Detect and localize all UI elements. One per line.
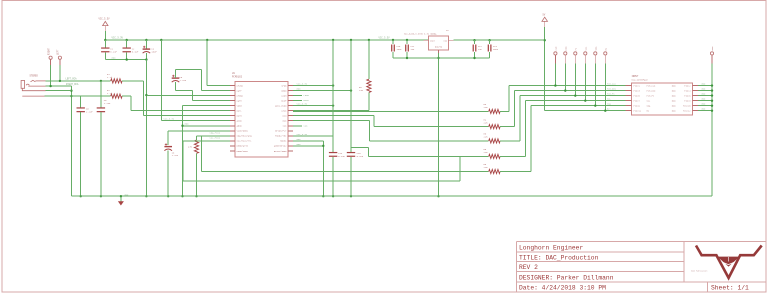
capacitor C10 10uF — [392, 40, 394, 44]
junction VNEG at ground rail — [181, 195, 183, 197]
svg-text:PCM5102: PCM5102 — [232, 76, 243, 79]
svg-text:REV 2: REV 2 — [519, 264, 538, 271]
junction C15 line row2 — [350, 89, 352, 91]
junction post SDA — [594, 104, 596, 106]
wire BCK to R3 — [293, 110, 489, 112]
wire main ground rail — [71, 195, 712, 197]
junction GND drop at rail — [322, 195, 324, 197]
svg-text:PIN#6: PIN#6 — [684, 95, 691, 98]
svg-text:PIN#4: PIN#4 — [684, 90, 691, 93]
wire R8 to header — [500, 155, 525, 157]
svg-text:10uF: 10uF — [493, 48, 499, 51]
svg-text:VCC_3.3V: VCC_3.3V — [379, 37, 391, 40]
junction U2 gnd at cap bus — [437, 57, 439, 59]
pin post SDA — [594, 52, 597, 55]
wire C4 GND drop to ground rail — [145, 60, 147, 197]
svg-text:RIGHT: RIGHT — [47, 47, 50, 55]
svg-text:VOUT: VOUT — [430, 39, 436, 42]
svg-text:SCL_PICK: SCL_PICK — [210, 137, 221, 140]
junction bus at CPVDD drop — [206, 39, 208, 41]
svg-text:AGND: AGND — [237, 125, 243, 128]
svg-text:SDA: SDA — [594, 46, 597, 51]
power symbol 5V top-right — [542, 17, 548, 21]
junction bus at C14 drop — [332, 39, 334, 41]
pin P1 RIGHT input — [49, 56, 52, 59]
svg-text:PIN#9: PIN#9 — [634, 105, 641, 108]
svg-text:LDOM: LDOM — [304, 94, 310, 97]
wire R4 to header — [500, 126, 514, 128]
svg-text:VNEG: VNEG — [237, 105, 243, 108]
svg-text:PIN#3: PIN#3 — [634, 90, 641, 93]
svg-text:1.7k: 1.7k — [107, 92, 113, 95]
svg-text:GND: GND — [297, 143, 302, 146]
resistor R1 1.7k left channel — [111, 79, 122, 83]
connector J1 stereo jack — [21, 80, 46, 96]
resistor R3 22R — [489, 109, 500, 113]
svg-text:BCKF: BCKF — [281, 100, 287, 103]
wire CAPM via C5 bottom — [175, 82, 177, 91]
junction sleeve/right jog — [70, 90, 72, 92]
junction U2 gnd at rail — [437, 195, 439, 197]
junction LEFT at pin P2 — [59, 80, 61, 82]
junction input caps C13 — [488, 39, 490, 41]
svg-text:OUTR: OUTR — [237, 115, 243, 118]
junction 5V / regulator output bus — [544, 39, 546, 41]
wire VCC stem — [104, 31, 106, 40]
svg-text:LEFT_RCA: LEFT_RCA — [66, 78, 78, 81]
svg-text:DGND: DGND — [281, 90, 287, 93]
junction cap bus C12 — [473, 57, 475, 59]
resistor R4 22R — [489, 125, 500, 129]
wire DIN to R4 staircase — [293, 115, 374, 117]
wire regulator cap ground bus — [393, 57, 490, 59]
svg-text:0.1uF: 0.1uF — [110, 50, 117, 53]
J2 right pin stubs — [692, 86, 698, 111]
svg-text:STEREO: STEREO — [30, 74, 39, 77]
svg-text:VCC_3.3V: VCC_3.3V — [297, 102, 308, 105]
wire U2 ground drop — [438, 53, 440, 196]
resistor R7 47k — [196, 136, 198, 140]
svg-text:GND/EN: GND/EN — [435, 46, 443, 49]
svg-text:TITLE: DAC_Production: TITLE: DAC_Production — [519, 254, 599, 261]
power symbol VCC_3.3V top-left — [103, 21, 108, 25]
svg-text:LEFT: LEFT — [57, 49, 60, 55]
svg-text:PIN#2: PIN#2 — [684, 85, 691, 88]
svg-text:SCL/MCLK/TTL: SCL/MCLK/TTL — [237, 140, 253, 143]
wire ring net — [45, 95, 111, 97]
J2 inner pin numbers left — [634, 85, 642, 113]
ground symbol GND — [120, 196, 122, 201]
svg-text:MCU-INTERFACE: MCU-INTERFACE — [632, 78, 649, 81]
wire R2 to OUTR — [122, 95, 131, 97]
svg-text:CAPP: CAPP — [237, 90, 243, 93]
junction C14 line row5 — [332, 104, 334, 106]
svg-text:GND: GND — [711, 46, 714, 51]
wire 5V stem — [544, 21, 546, 27]
svg-text:DESIGNER: Parker Dillmann: DESIGNER: Parker Dillmann — [519, 274, 614, 281]
junction post DIN — [564, 89, 566, 91]
J2 right GND net labels — [702, 82, 706, 110]
capacitor C6 2.2uF VCOM — [167, 131, 169, 145]
wire C15 tap to R4 net — [351, 147, 369, 149]
title block outline — [517, 242, 767, 293]
J2 inner GND column — [672, 85, 676, 113]
svg-text:Date: 4/24/2018 3:10 PM: Date: 4/24/2018 3:10 PM — [519, 285, 606, 292]
junction C15 at rail — [350, 195, 352, 197]
svg-text:PCM_DIN: PCM_DIN — [607, 87, 616, 90]
svg-text:GND: GND — [297, 138, 302, 141]
longhorn logo — [696, 246, 762, 278]
junction bus at AVDD drop — [160, 39, 162, 41]
svg-text:22R: 22R — [484, 151, 489, 154]
wire DGND pin2 — [293, 90, 351, 92]
svg-text:PIN#1: PIN#1 — [634, 85, 641, 88]
wire R9 to header — [500, 171, 531, 173]
wire 5V to header — [545, 110, 626, 112]
svg-text:CPVDD: CPVDD — [237, 85, 244, 88]
svg-text:PCM_CLK: PCM_CLK — [647, 85, 656, 88]
connector J2 INPUT header body — [632, 83, 693, 115]
U1 left pin names — [237, 85, 253, 153]
junction C4 drop at rail — [145, 195, 147, 197]
capacitor C4 10uF polarized — [145, 40, 147, 48]
svg-text:PIN#10: PIN#10 — [683, 105, 691, 108]
capacitor C5 2.2uF flying — [172, 77, 180, 79]
junction bus at C1 — [104, 39, 106, 41]
capacitor C11 1uF — [406, 40, 408, 44]
junction C8 at ground rail — [80, 195, 82, 197]
wire jack sleeve to ground rail — [70, 86, 72, 196]
svg-text:AVDD: AVDD — [237, 120, 243, 123]
pin post DIN — [564, 52, 567, 55]
svg-text:VCC_3.3V: VCC_3.3V — [164, 117, 175, 120]
junction RIGHT at pin P1 — [49, 85, 51, 87]
wire AVDD from bus — [160, 40, 162, 121]
U1 left pin stubs — [230, 86, 235, 151]
wire DVDD pin5 — [293, 105, 333, 107]
junction GND bus at C4 — [145, 58, 147, 60]
junction LEFT at C9 tap — [100, 80, 102, 82]
capacitor C13 10uF — [489, 40, 491, 44]
U2 right pin stub — [449, 39, 454, 41]
svg-text:FODB2/TRI: FODB2/TRI — [275, 135, 287, 138]
wire GND bus under C1-C4 — [105, 59, 146, 61]
pin post FS — [574, 52, 577, 55]
junction input caps C12 — [473, 39, 475, 41]
svg-text:22R: 22R — [484, 106, 489, 109]
wire AGND row9 — [183, 125, 231, 127]
svg-text:Longhorn Engineer: Longhorn Engineer — [519, 244, 583, 251]
svg-text:ADR0/GPIO2: ADR0/GPIO2 — [274, 145, 287, 148]
svg-text:ABS1_DVDD: ABS1_DVDD — [275, 105, 287, 108]
svg-text:PIN#8: PIN#8 — [684, 100, 691, 103]
wire R5 to header — [500, 140, 520, 142]
svg-text:RIGHT_RCA: RIGHT_RCA — [66, 83, 79, 86]
net stub BCKF — [293, 100, 302, 102]
svg-text:PIN#5: PIN#5 — [634, 95, 641, 98]
svg-text:GND: GND — [185, 122, 190, 125]
junction bus at R6 pullup — [368, 39, 370, 41]
capacitor C8 2.2uF — [80, 96, 82, 107]
pin post GND right — [710, 52, 713, 55]
svg-text:SCL: SCL — [584, 46, 587, 51]
svg-text:Sheet: 1/1: Sheet: 1/1 — [711, 285, 749, 292]
svg-text:PIN#11: PIN#11 — [634, 110, 642, 113]
junction bus at C4 — [145, 39, 147, 41]
net stub LDOM — [293, 95, 302, 97]
svg-text:22R: 22R — [484, 136, 489, 139]
wire CPGND — [146, 95, 230, 97]
junction rail at ground symbol — [120, 195, 122, 197]
svg-text:PIN#7: PIN#7 — [634, 100, 641, 103]
wire LRCK to R5 staircase — [293, 120, 370, 122]
U1 right pin names — [274, 85, 287, 153]
wire U2 input bus 5V side — [454, 39, 545, 41]
junction GND drop row13 — [322, 145, 324, 147]
J2 left net labels — [607, 82, 616, 110]
resistor R2 1.7k right channel — [111, 94, 122, 98]
pin post CLK — [554, 52, 557, 55]
svg-text:DMGB/ATTB: DMGB/ATTB — [237, 145, 249, 148]
svg-text:GPIO3/FLT: GPIO3/FLT — [275, 130, 287, 133]
wire R1 to OUTL — [122, 80, 143, 82]
J2 left pin stubs — [626, 86, 632, 111]
svg-text:VCC_3.3V: VCC_3.3V — [112, 37, 124, 40]
wire R3 to header — [500, 110, 509, 112]
capacitor C12 1uF — [474, 40, 476, 44]
resistor R9 22R — [489, 169, 500, 173]
J2 right GND wires — [698, 86, 712, 111]
junction CPGND tap — [145, 94, 147, 96]
svg-text:DIN: DIN — [564, 46, 567, 51]
svg-text:0.1uF: 0.1uF — [132, 50, 139, 53]
wire XSMT pullup row — [293, 110, 369, 112]
capacitor C1 0.1uF — [104, 40, 106, 48]
svg-text:MODE1: MODE1 — [280, 140, 287, 143]
capacitor C2 0.1uF — [126, 40, 128, 48]
svg-text:VCC_3.3V: VCC_3.3V — [297, 82, 308, 85]
wire VCC_3.3V pin1 — [293, 85, 333, 87]
svg-text:SCK: SCK — [304, 124, 309, 127]
svg-text:PCM_DIN: PCM_DIN — [647, 90, 656, 93]
wire GND tap row12 — [293, 140, 324, 142]
wire CAPP via C5 top — [175, 70, 177, 79]
resistor R8 22R — [489, 154, 500, 158]
svg-text:MIC-5205-3.3YM5 3.3V 300mA: MIC-5205-3.3YM5 3.3V 300mA — [404, 33, 437, 36]
wire RIGHT_RCA — [46, 85, 72, 87]
svg-text:VCC_3.3V: VCC_3.3V — [99, 18, 111, 21]
svg-text:CLK: CLK — [555, 46, 558, 51]
wire VCC tap row11 — [293, 135, 333, 137]
svg-text:LRCK: LRCK — [281, 110, 287, 113]
svg-text:10uF: 10uF — [151, 50, 157, 53]
junction AGND at VNEG drop — [181, 125, 183, 127]
svg-text:2.2uF: 2.2uF — [86, 110, 93, 113]
svg-text:Moon Fabrication: Moon Fabrication — [691, 270, 707, 272]
junction cap bus C11 — [406, 57, 408, 59]
svg-text:PCM_CLK: PCM_CLK — [607, 82, 616, 85]
svg-text:10uF: 10uF — [397, 48, 403, 51]
junction bus at C10 — [392, 39, 394, 41]
U2 left pin stub — [424, 39, 429, 41]
wire CPVDD feed — [206, 40, 208, 86]
junction C14 at rail — [332, 195, 334, 197]
svg-text:0.1uF: 0.1uF — [357, 155, 364, 158]
junction post FS — [574, 94, 576, 96]
resistor R6 22R pullup — [368, 40, 370, 79]
junction post 5V — [604, 110, 606, 112]
svg-text:GND: GND — [112, 56, 117, 59]
pin post 5V — [604, 52, 607, 55]
pin P2 LEFT input — [58, 56, 61, 59]
voltage regulator U2 body — [429, 36, 449, 50]
junction R7 at ground rail — [195, 195, 197, 197]
svg-text:22R: 22R — [484, 166, 489, 169]
wire GND right rail — [711, 86, 713, 197]
svg-text:VCC_3.3V: VCC_3.3V — [297, 133, 308, 136]
op-amp U1 PCM5102 body — [235, 82, 288, 157]
svg-text:LDOM: LDOM — [281, 95, 287, 98]
junction bus at C2 — [126, 39, 128, 41]
wire GND tap row13 — [293, 145, 324, 147]
junction GND bus at C2 — [126, 58, 128, 60]
wire SCL_PICK — [183, 140, 230, 142]
svg-text:2.2uF: 2.2uF — [104, 102, 111, 105]
svg-text:1.7k: 1.7k — [107, 76, 113, 79]
svg-text:GPIO1/3GND: GPIO1/3GND — [274, 150, 287, 153]
svg-text:PIN#12: PIN#12 — [683, 110, 691, 113]
svg-text:SPDB: SPDB — [281, 85, 287, 88]
junction post SCL — [584, 99, 586, 101]
junction C14 line row1 — [332, 84, 334, 86]
capacitor C9 2.2uF — [100, 81, 102, 108]
svg-text:47k: 47k — [188, 146, 193, 149]
junction C6 at ground rail — [167, 195, 169, 197]
svg-text:CPGND: CPGND — [237, 95, 244, 98]
wire LEFT_RCA — [46, 80, 111, 82]
U2 ground pin stub — [438, 50, 440, 53]
wire VNEG to ground rail — [182, 106, 184, 197]
resistor R5 22R — [489, 139, 500, 143]
junction C9 at ground rail — [100, 195, 102, 197]
junction bus at C11 — [406, 39, 408, 41]
net stub SCK — [293, 125, 302, 127]
pin post SCL — [584, 52, 587, 55]
svg-text:0.1uF: 0.1uF — [338, 155, 345, 158]
svg-text:PCM_FS: PCM_FS — [607, 92, 615, 95]
junction bus at C15 drop — [350, 39, 352, 41]
wire SCL to R4 — [369, 155, 489, 157]
svg-text:22R: 22R — [484, 121, 489, 124]
svg-text:2.2uF: 2.2uF — [172, 154, 179, 157]
J2 inner pin numbers right — [683, 85, 691, 113]
svg-text:OUTL: OUTL — [237, 110, 243, 113]
svg-text:2.2uF: 2.2uF — [180, 79, 187, 82]
svg-text:PCM_FS: PCM_FS — [647, 95, 655, 98]
svg-text:22R: 22R — [359, 89, 364, 92]
J2 inner signal names — [647, 85, 656, 113]
capacitor C15 0.1uF — [350, 40, 352, 152]
capacitor C14 0.1uF — [332, 40, 334, 152]
wire GND drop to rail — [322, 141, 324, 196]
wire SDA_PICK — [202, 135, 231, 137]
svg-text:GND: GND — [297, 87, 302, 90]
svg-text:DMGA/PAGT: DMGA/PAGT — [237, 150, 249, 153]
wire VCC_3.3V bus — [105, 39, 428, 41]
svg-text:CAPM: CAPM — [237, 100, 243, 103]
junctions GND rail at header rows — [711, 89, 713, 112]
svg-text:SDA/MELD/ATQ: SDA/MELD/ATQ — [237, 135, 253, 138]
junction post CLK — [554, 84, 556, 86]
svg-text:SDA_PICK: SDA_PICK — [210, 132, 221, 135]
U1 right pin stubs — [288, 86, 293, 151]
svg-text:VCOM/DGNV: VCOM/DGNV — [237, 130, 249, 133]
